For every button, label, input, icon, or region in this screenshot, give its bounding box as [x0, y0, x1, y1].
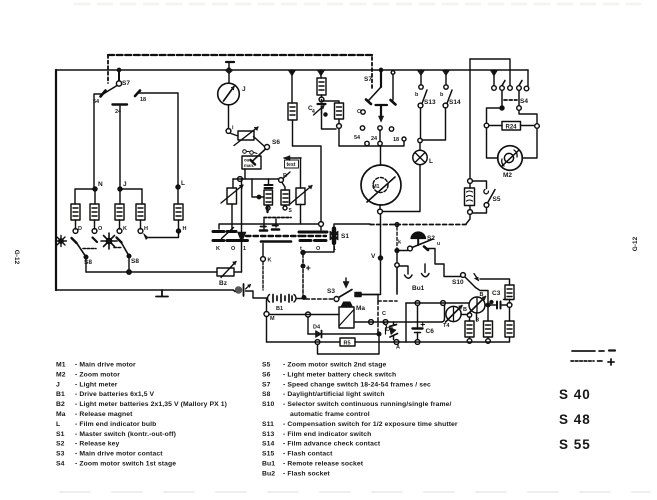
switch S8 pole b [117, 238, 131, 273]
release key S2 button dome [411, 232, 426, 245]
svg-text:A: A [396, 345, 400, 351]
resistor R3 (J branch 1) [115, 204, 124, 233]
svg-text:S14: S14 [449, 99, 461, 106]
wire top-right over loop [470, 59, 510, 86]
node circle on drop [319, 222, 324, 227]
svg-text:S10: S10 [452, 279, 464, 286]
out man box [242, 156, 261, 169]
resistor network right box [281, 190, 290, 210]
svg-text:3: 3 [476, 318, 479, 324]
svg-text:- Selector switch continuous r: - Selector switch continuous running/sin… [283, 401, 452, 408]
svg-text:S8: S8 [84, 259, 92, 266]
svg-text:B2: B2 [56, 401, 65, 408]
dashed bottom link of R network [264, 217, 291, 219]
switch S7 pole 1 [101, 68, 141, 104]
wire R23 drop to plus bus [466, 215, 470, 225]
switch S4 contacts and blades [500, 81, 522, 111]
svg-text:O: O [231, 246, 236, 252]
wire lower rail to transistor section [406, 341, 509, 343]
transistor T4 [446, 306, 463, 323]
capacitor C6 [413, 306, 425, 345]
node N [75, 187, 97, 204]
svg-text:- Zoom motor: - Zoom motor [75, 371, 120, 378]
svg-text:S7: S7 [262, 381, 271, 388]
wire M1 V line [358, 214, 381, 295]
svg-text:S1: S1 [341, 233, 349, 240]
wire S4 to R24 loop right [519, 111, 537, 124]
middle bank ticks [261, 226, 279, 227]
battery B1 [268, 295, 306, 303]
contact R with blade [279, 172, 290, 190]
svg-text:- Light meter: - Light meter [75, 381, 118, 388]
node L [176, 185, 180, 204]
svg-text:S3: S3 [327, 288, 335, 295]
resistor middle [484, 305, 493, 343]
wire bottom loop rail [318, 334, 380, 354]
potentiometer frame rate (right) [290, 158, 312, 224]
switch S11 wiper triangle [238, 232, 247, 243]
svg-text:O: O [98, 226, 103, 232]
diode D3 [390, 322, 399, 344]
legend left column [56, 362, 227, 468]
wire Ma to node circles [354, 321, 442, 323]
svg-text:M2: M2 [56, 371, 66, 378]
svg-text:man.: man. [244, 163, 254, 168]
svg-text:S2: S2 [56, 441, 65, 448]
wire rail to battery B1 [246, 291, 267, 298]
svg-text:S11: S11 [262, 421, 274, 428]
model names [559, 387, 591, 452]
junction arrowhead at H [144, 234, 149, 240]
svg-text:S 55: S 55 [559, 437, 591, 452]
svg-text:K: K [123, 226, 127, 232]
svg-text:B: B [463, 307, 467, 313]
svg-text:- Compensation switch for 1/2: - Compensation switch for 1/2 exposure t… [283, 421, 458, 428]
resistor emitter left [465, 321, 474, 343]
wire dashed plus drop from S3 node [377, 295, 379, 302]
resistor network left box [264, 190, 273, 210]
svg-text:S14: S14 [262, 441, 275, 448]
svg-text:H: H [144, 226, 148, 232]
svg-text:M2: M2 [503, 172, 512, 179]
wire out-man to junction row [244, 169, 246, 179]
switch S7 pole 2 [360, 68, 395, 145]
svg-text:N: N [98, 181, 103, 188]
potentiometer compensation (left) [221, 179, 243, 230]
polarity legend [571, 351, 615, 366]
wire dashed drop to plus rail [302, 254, 304, 298]
rheostat Bz [217, 262, 242, 278]
contact tick at O [93, 238, 98, 243]
svg-text:- Drive batteries 6x1,5 V: - Drive batteries 6x1,5 V [75, 391, 155, 398]
resistor parallel to C4 [322, 101, 344, 146]
lamp star daylight [56, 236, 67, 247]
node J [118, 187, 142, 204]
svg-text:K: K [268, 258, 272, 264]
diode D4 [308, 317, 379, 338]
wire base line [406, 302, 469, 304]
svg-text:1: 1 [333, 246, 336, 252]
wire R17 to bank drop [293, 146, 322, 222]
stubs R network to switch bank [264, 219, 276, 229]
svg-text:18: 18 [140, 97, 146, 103]
wire S7 contact 18 to node L [139, 93, 178, 185]
svg-text:M1: M1 [56, 362, 66, 369]
svg-text:S 40: S 40 [559, 387, 591, 402]
wire M row to magnet Ma [269, 314, 339, 316]
svg-text:S5: S5 [493, 196, 501, 203]
node M [264, 299, 269, 343]
wire wiper to motor M1 [380, 146, 382, 165]
svg-text:- Light meter battery check sw: - Light meter battery check switch [283, 371, 396, 378]
resistor R23 [465, 184, 475, 215]
svg-text:- Release magnet: - Release magnet [75, 411, 133, 418]
wire dashed plus to S3 [306, 298, 333, 300]
wire S1 output to dashed drop [303, 244, 334, 253]
svg-text:24: 24 [115, 109, 122, 115]
junction arrow S4 feed [491, 71, 498, 77]
resistor R17 [288, 70, 297, 146]
potentiometer light meter (slanted box) [231, 127, 264, 146]
svg-text:M: M [270, 316, 275, 322]
svg-text:L: L [56, 421, 60, 428]
switch S11 blade [222, 228, 234, 239]
wire top minus bus [56, 69, 528, 71]
svg-text:1: 1 [243, 246, 246, 252]
switch S3 [334, 278, 378, 302]
svg-text:S1: S1 [56, 431, 65, 438]
svg-text:- Speed change switch 18-24-54: - Speed change switch 18-24-54 frames / … [283, 381, 431, 388]
svg-text:B1: B1 [276, 306, 283, 312]
contact K below bank [261, 244, 266, 291]
wire bottom minus rail [56, 289, 233, 291]
svg-text:S8: S8 [262, 391, 271, 398]
switch S1 bank bars [299, 232, 327, 241]
wire S7 contact 54 to node N [94, 94, 103, 187]
svg-text:S6: S6 [272, 139, 280, 146]
selector switch S10 [461, 273, 488, 303]
switch S11 left bank bars [213, 232, 248, 241]
svg-text:S3: S3 [56, 451, 65, 458]
svg-text:S2: S2 [427, 235, 435, 242]
svg-text:B: B [480, 292, 484, 298]
svg-text:H: H [183, 226, 187, 232]
junction tap at meter [226, 61, 234, 63]
remote release socket Bu1 [395, 253, 429, 294]
svg-text:L: L [181, 180, 185, 187]
wire T4 emitter to resistor [461, 314, 467, 316]
svg-text:Bu1: Bu1 [262, 461, 275, 468]
svg-text:Bz: Bz [219, 280, 228, 287]
svg-text:V: V [371, 253, 376, 260]
svg-text:S13: S13 [424, 99, 436, 106]
legend right column [262, 362, 458, 478]
svg-text:G-12: G-12 [13, 250, 20, 265]
resistor R1 (N branch 1) [71, 204, 80, 233]
svg-text:R5: R5 [344, 341, 351, 347]
svg-text:S15: S15 [262, 451, 275, 458]
wire left border [55, 70, 57, 290]
schematic labels [78, 76, 528, 351]
wire S10 to resistor C3 branch [480, 279, 510, 285]
svg-text:4: 4 [312, 109, 315, 115]
svg-text:J: J [123, 181, 127, 188]
wire thin bank top rail [219, 224, 321, 230]
svg-text:- Release key: - Release key [75, 441, 119, 448]
wire S8 common rail [86, 271, 217, 273]
svg-text:J: J [242, 86, 246, 93]
svg-text:54: 54 [93, 99, 100, 105]
svg-text:S4: S4 [520, 98, 528, 105]
capacitor C3 [485, 300, 512, 309]
svg-text:- Main drive motor contact: - Main drive motor contact [75, 451, 163, 458]
motor M2 [487, 128, 538, 170]
resistor R6 (L branch) [174, 204, 183, 233]
release magnet Ma [339, 302, 354, 328]
wire dashed drop left [107, 55, 109, 83]
svg-text:S7: S7 [364, 76, 372, 83]
svg-text:- Master switch (kontr.-out-of: - Master switch (kontr.-out-off) [75, 431, 176, 438]
resistor in C3 branch [505, 285, 514, 303]
svg-text:- Film end indicator bulb: - Film end indicator bulb [75, 421, 156, 428]
node junction circle [233, 177, 252, 182]
wire plus dashed top line [108, 54, 372, 56]
svg-text:t: t [300, 246, 302, 252]
svg-text:out: out [244, 158, 251, 163]
capacitor above R network [268, 179, 270, 184]
svg-text:- Daylight/artificial light sw: - Daylight/artificial light switch [283, 391, 385, 398]
battery check icons G [243, 150, 257, 155]
switch S5 [473, 181, 496, 213]
wire squiggle to Ma node [384, 322, 387, 334]
resistor right [505, 308, 514, 343]
switch S2 [395, 223, 433, 253]
wire M1 loop to lamp [383, 165, 421, 212]
meter J [218, 83, 240, 133]
wire contact H return [148, 233, 179, 238]
wire S7 contact 24 to node J [119, 106, 121, 187]
transistor T3 [469, 297, 486, 314]
svg-text:automatic frame control: automatic frame control [290, 411, 370, 418]
wire long vertical to R23 [469, 59, 471, 179]
svg-text:D4: D4 [313, 325, 321, 331]
wire junction to R network [252, 179, 279, 197]
junction arrow bus at C4 branch [318, 71, 325, 77]
resistor R2 (N branch 2) [90, 204, 99, 233]
lamp star artificial light [101, 233, 117, 249]
svg-text:S4: S4 [56, 461, 65, 468]
node base junction [486, 303, 490, 307]
junction S8 rail [127, 270, 131, 274]
svg-text:test: test [287, 162, 296, 168]
dashed rail S1 [301, 235, 326, 237]
switch S1 wiper column [330, 224, 338, 243]
dashed wiper rail middle [246, 235, 300, 237]
ground symbol [156, 290, 168, 297]
svg-text:S10: S10 [262, 401, 275, 408]
svg-text:R: R [283, 173, 287, 179]
junction arrow bus at R17 [289, 71, 296, 77]
capacitor C4 [314, 100, 337, 130]
resistor above C4 [317, 70, 326, 102]
svg-text:Bu1: Bu1 [412, 285, 425, 292]
resistor R24 [489, 122, 535, 131]
svg-text:- Zoom motor switch 2nd stage: - Zoom motor switch 2nd stage [283, 362, 386, 369]
switch S8 pole a [72, 238, 88, 272]
svg-text:- Light meter batteries 2x1,35: - Light meter batteries 2x1,35 V (Mallor… [75, 401, 227, 408]
switch S13 [418, 70, 428, 139]
middle bank bars [260, 230, 291, 242]
wire plus drop join [377, 332, 381, 336]
svg-text:K: K [216, 246, 220, 252]
svg-text:D3: D3 [386, 327, 393, 333]
svg-text:S 48: S 48 [559, 412, 591, 427]
svg-text:T4: T4 [443, 323, 450, 329]
svg-text:S8: S8 [131, 258, 139, 265]
wire wiper drop to Bz [241, 179, 243, 272]
wire S4 to R24 loop left [487, 108, 503, 123]
svg-text:- Remote release socket: - Remote release socket [283, 461, 364, 468]
switch S6 [251, 145, 270, 165]
svg-text:54: 54 [354, 135, 361, 141]
lamp L film end [413, 138, 427, 164]
switch S14 [423, 70, 453, 140]
svg-text:G-12: G-12 [632, 236, 639, 251]
svg-text:S13: S13 [262, 431, 275, 438]
svg-text:24: 24 [371, 136, 378, 142]
wire solid link S1 to plus bus [335, 223, 370, 225]
svg-text:L: L [429, 158, 433, 165]
svg-text:Bu2: Bu2 [262, 470, 275, 477]
svg-text:C: C [382, 311, 386, 317]
flash socket Bu2 symbol [233, 284, 251, 296]
scan noise top [75, 3, 640, 6]
svg-text:O: O [316, 246, 321, 252]
svg-text:Ma: Ma [56, 411, 66, 418]
wire plus dashed bus [370, 224, 466, 226]
svg-text:C6: C6 [426, 328, 435, 335]
svg-text:- Flash socket: - Flash socket [283, 470, 330, 477]
wire C4 group to speed contacts [339, 141, 404, 146]
wire S2 right contact staircase to S10 [428, 249, 461, 277]
test arrow [284, 156, 301, 169]
svg-text:- Film advance check contact: - Film advance check contact [283, 441, 381, 448]
svg-text:C3: C3 [492, 290, 501, 297]
svg-text:S7: S7 [122, 80, 130, 87]
svg-text:Ma: Ma [356, 305, 365, 312]
svg-text:S6: S6 [262, 371, 271, 378]
svg-text:J: J [56, 381, 60, 388]
svg-text:R24: R24 [506, 125, 518, 131]
svg-text:O: O [357, 109, 362, 115]
svg-text:- Flash contact: - Flash contact [283, 451, 333, 458]
svg-text:B1: B1 [56, 391, 65, 398]
svg-text:D: D [78, 226, 82, 232]
svg-text:u: u [437, 241, 440, 247]
resistor R5 [267, 338, 407, 346]
wire T3 emitter down [476, 313, 478, 321]
svg-text:18: 18 [393, 137, 399, 143]
svg-text:S5: S5 [262, 362, 271, 369]
resistor R4 (J branch 2) [136, 204, 145, 233]
svg-text:- Zoom motor switch 1st stage: - Zoom motor switch 1st stage [75, 461, 176, 468]
svg-text:- Film end indicator switch: - Film end indicator switch [283, 431, 371, 438]
svg-text:- Main drive motor: - Main drive motor [75, 362, 136, 369]
gang link dashed S8 [83, 248, 122, 249]
svg-text:M1: M1 [373, 184, 380, 190]
wire dashed drop S7 second pole [371, 57, 373, 90]
wire Ma row rise to base [442, 306, 445, 323]
motor M1 [361, 165, 401, 214]
wire bus right end drop [527, 70, 529, 86]
